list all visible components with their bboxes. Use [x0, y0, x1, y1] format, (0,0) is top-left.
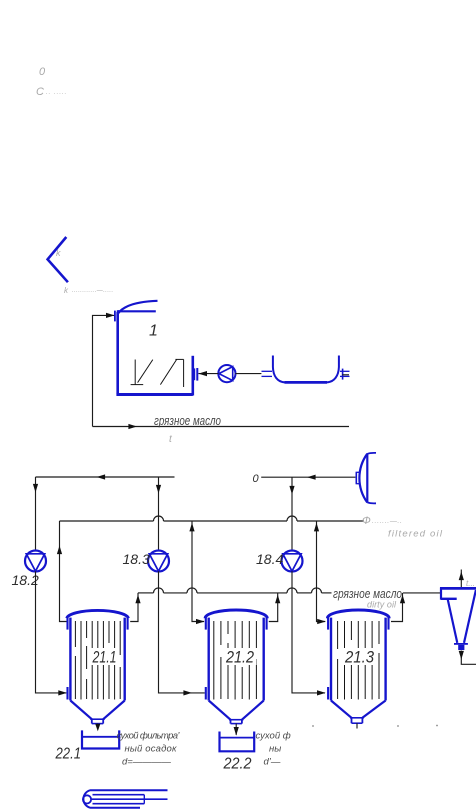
svg-text:0: 0 — [253, 473, 260, 485]
svg-text:d=————: d=———— — [122, 757, 171, 768]
svg-text:1: 1 — [149, 323, 158, 340]
svg-text:22.1: 22.1 — [55, 746, 81, 763]
svg-text:filtered oil: filtered oil — [388, 529, 443, 540]
svg-text:............—.....: ............—..... — [72, 288, 114, 294]
svg-text:d’—: d’— — [264, 757, 281, 768]
svg-text:dirty oil: dirty oil — [367, 600, 397, 610]
svg-text:22.2: 22.2 — [223, 756, 252, 773]
svg-text:.......—..: .......—.. — [372, 518, 403, 525]
svg-text:21.1: 21.1 — [92, 649, 117, 667]
svg-text:Ф: Ф — [362, 515, 371, 527]
svg-text:.. .....: .. ..... — [46, 90, 67, 96]
svg-text:0: 0 — [39, 66, 46, 78]
svg-text:18.2: 18.2 — [12, 572, 39, 588]
svg-text:сухой фильтра’: сухой фильтра’ — [117, 731, 181, 742]
svg-text:ный осадок: ный осадок — [125, 744, 178, 755]
svg-text:21.3: 21.3 — [344, 649, 375, 667]
svg-text:сухой ф: сухой ф — [256, 731, 291, 742]
svg-text:18.3: 18.3 — [123, 551, 150, 567]
svg-text:ны: ны — [269, 744, 281, 755]
svg-text:k: k — [56, 248, 61, 258]
svg-text:18.4: 18.4 — [256, 551, 283, 567]
svg-text:грязное масло: грязное масло — [154, 413, 221, 428]
svg-text:C: C — [36, 86, 44, 98]
svg-text:t...: t... — [466, 579, 475, 588]
svg-text:21.2: 21.2 — [225, 649, 254, 667]
